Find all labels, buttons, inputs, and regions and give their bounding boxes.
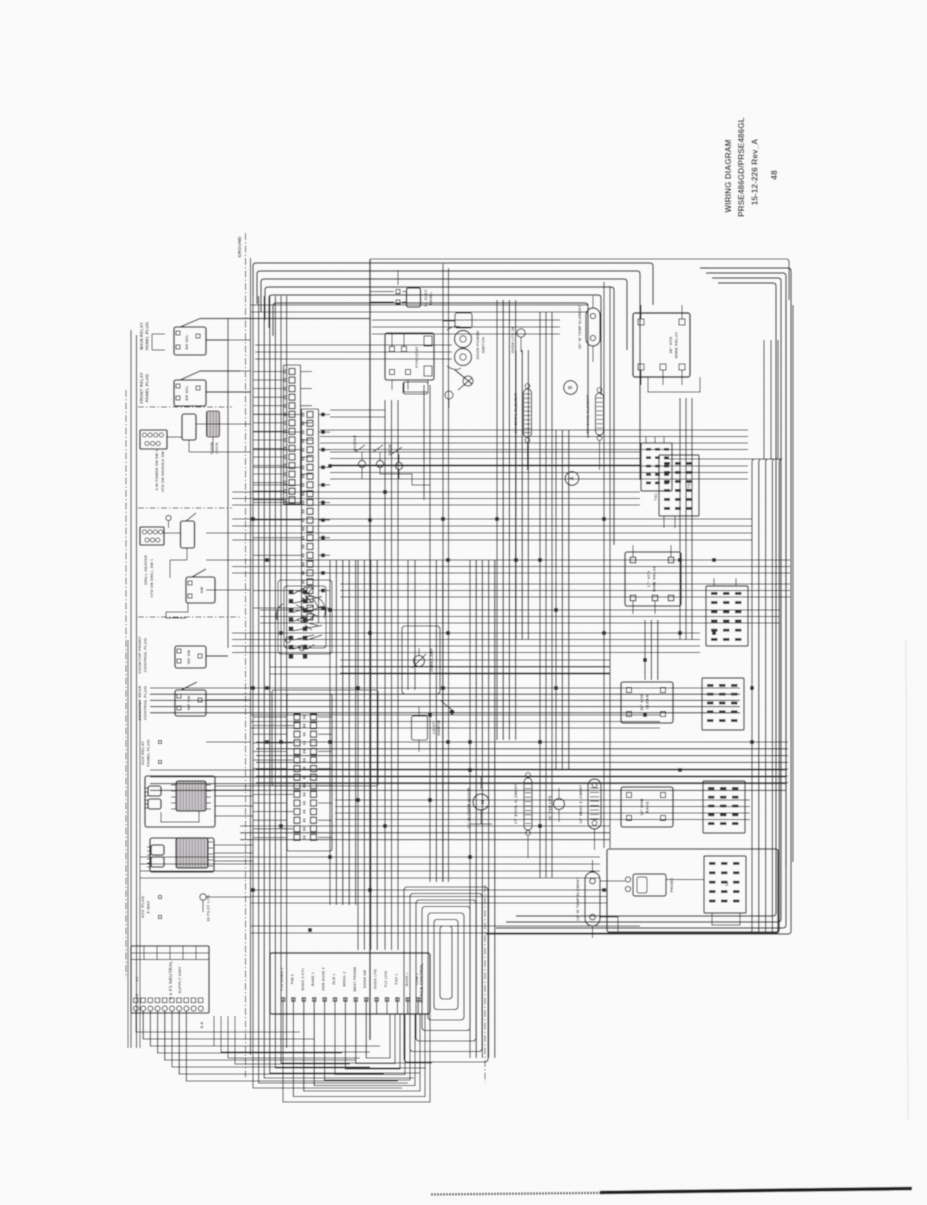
blower motor 17	[473, 794, 489, 810]
svg-text:88: 88	[303, 801, 307, 805]
heat wire relay 36	[633, 313, 690, 377]
left dash-dot border	[125, 390, 127, 978]
svg-text:INF SW: INF SW	[187, 650, 191, 665]
relay2 coil hatched	[176, 838, 208, 868]
svg-text:4 IN POWER ON SW 1: 4 IN POWER ON SW 1	[155, 450, 159, 491]
connector strip P3 pins B	[311, 714, 317, 720]
svg-text:AUX RELAY: AUX RELAY	[140, 741, 145, 766]
svg-text:8-8: 8-8	[199, 1021, 204, 1028]
mid verticals 4	[329, 560, 331, 905]
mid fill lines	[270, 666, 610, 668]
nested loop stack	[404, 887, 488, 1062]
svg-text:88: 88	[302, 553, 306, 557]
right frame wire bundle	[486, 268, 791, 934]
circle terminal A	[565, 472, 579, 486]
bundle row D2	[335, 799, 750, 801]
svg-text:88: 88	[283, 455, 287, 459]
bundle row D	[256, 741, 788, 743]
svg-text:WIRING DIAGRAM: WIRING DIAGRAM	[724, 139, 733, 212]
svg-text:PRSE486GD/PRSE486GL: PRSE486GD/PRSE486GL	[737, 117, 746, 217]
probe wiring	[666, 879, 704, 881]
svg-text:B: B	[568, 385, 574, 389]
relay module stubs	[215, 785, 253, 787]
svg-text:DOB BAKE 2: DOB BAKE 2	[322, 967, 326, 991]
svg-text:88: 88	[283, 421, 287, 425]
svg-text:BAKE L: BAKE L	[405, 971, 409, 986]
svg-text:SUPPLY 230V: SUPPLY 230V	[178, 966, 182, 993]
timer lever wires	[447, 326, 463, 330]
wire oven lite	[397, 270, 399, 285]
svg-text:42" FAN LITE: 42" FAN LITE	[548, 795, 552, 820]
svg-text:88: 88	[303, 732, 307, 736]
bundle row G	[260, 609, 780, 611]
hob relay 12	[621, 787, 673, 827]
svg-text:88: 88	[302, 474, 306, 478]
svg-text:4 x F1 NEUTRAL: 4 x F1 NEUTRAL	[168, 960, 173, 999]
heat wire relay 36 leads	[640, 305, 642, 319]
svg-text:36" W TEMP ELEMENT: 36" W TEMP ELEMENT	[578, 305, 582, 349]
probe cluster frame	[607, 849, 778, 932]
right short verticals	[763, 340, 765, 460]
connector strip P3 frame	[287, 694, 332, 851]
connector strip P1 leads	[301, 371, 313, 373]
svg-text:36" HOB: 36" HOB	[639, 693, 644, 710]
probe relay	[704, 856, 746, 913]
oven lamp switch loop	[166, 603, 188, 618]
left bus stubs	[206, 339, 251, 341]
board-left wire fan	[136, 1011, 300, 1032]
group divider dash-dot 2	[138, 507, 232, 509]
svg-text:88: 88	[303, 792, 307, 796]
svg-text:15-12-226 Rev_A: 15-12-226 Rev_A	[751, 139, 760, 206]
svg-text:88: 88	[283, 369, 287, 373]
svg-text:ACC PLUG: ACC PLUG	[140, 896, 145, 919]
terminal block screws	[134, 1006, 139, 1011]
svg-text:88: 88	[302, 562, 306, 566]
bottom scan black bar	[600, 1189, 912, 1193]
svg-text:88: 88	[283, 429, 287, 433]
svg-text:L1: L1	[135, 977, 139, 982]
sheet dash-dot border vertical	[245, 233, 247, 1078]
svg-text:88: 88	[283, 395, 287, 399]
upper horizontals 6	[232, 491, 640, 493]
faint streak	[906, 640, 908, 1120]
terminal block frame	[131, 946, 209, 1013]
bundle row C	[150, 687, 740, 689]
door lock motor hatched	[207, 411, 220, 437]
pilot lite circle	[200, 894, 206, 900]
connector strip P3 comb wires	[253, 716, 287, 718]
mid verticals 12	[384, 400, 386, 950]
svg-text:COOKTOP FRONT: COOKTOP FRONT	[137, 636, 142, 674]
svg-text:17" BROIL ELEMENT: 17" BROIL ELEMENT	[514, 783, 518, 824]
svg-text:88: 88	[303, 809, 307, 813]
svg-text:88: 88	[283, 438, 287, 442]
bottom scan text strip	[431, 1193, 640, 1195]
svg-text:88: 88	[302, 447, 306, 451]
broil element 36	[524, 389, 532, 437]
mid verticals 10	[496, 300, 498, 740]
relay 17 leads	[632, 545, 634, 557]
ground bus wire	[250, 258, 252, 1055]
selector switch S1	[174, 327, 206, 355]
thermostat relay K1	[385, 333, 434, 380]
svg-text:DLB 1: DLB 1	[332, 973, 336, 984]
right bundle verticals	[751, 462, 753, 930]
svg-text:WIRE RELAY: WIRE RELAY	[674, 331, 679, 358]
svg-text:12" W TEMP ELEMENT: 12" W TEMP ELEMENT	[576, 877, 580, 921]
loop stack dash-dot	[484, 885, 486, 1082]
svg-text:BAKE 1: BAKE 1	[311, 972, 315, 986]
svg-text:BROIL 2: BROIL 2	[342, 971, 346, 986]
mid verticals 9	[644, 620, 646, 680]
connector strip P1 pins	[289, 369, 295, 375]
cooktop front box	[175, 646, 206, 668]
upper horizontals 7	[255, 344, 452, 346]
connector strip P1 frame	[284, 365, 301, 504]
svg-text:88: 88	[303, 818, 307, 822]
svg-text:48: 48	[769, 170, 779, 180]
selector switch S2	[174, 380, 206, 406]
mid verticals 8	[555, 430, 557, 770]
bundle row E2	[250, 889, 607, 891]
door sw circle	[395, 462, 402, 469]
top wire bundle	[253, 263, 653, 305]
wire cooktop to bus	[206, 699, 251, 701]
selector contact matrix M3	[703, 781, 745, 833]
probe jack	[633, 874, 666, 896]
wire S2 right	[206, 391, 251, 393]
svg-text:BR SEL: BR SEL	[185, 334, 189, 350]
svg-text:OVEN LITE 36: OVEN LITE 36	[511, 327, 515, 353]
svg-text:PANEL PLUG: PANEL PLUG	[145, 322, 150, 351]
door lock wiring	[167, 436, 182, 438]
svg-text:88: 88	[283, 378, 287, 382]
bundle row I	[150, 769, 786, 771]
svg-text:12" BAKE ELEMENT: 12" BAKE ELEMENT	[579, 784, 583, 824]
board-left rising loops	[214, 1016, 380, 1046]
upper horizontals 2	[330, 409, 385, 411]
connector strip P2 frame	[302, 409, 319, 623]
mid verticals 11	[515, 350, 517, 640]
board-bottom wire loops	[283, 1014, 430, 1102]
mid verticals 1	[539, 312, 541, 878]
svg-text:12: 12	[724, 881, 729, 886]
mid verticals 7	[469, 560, 471, 1058]
top frame extension wires	[370, 259, 789, 300]
bundle row B	[232, 632, 700, 634]
cooktop rear box	[175, 690, 206, 716]
mid verticals 2	[603, 282, 605, 848]
wire S1 to bus	[206, 339, 228, 341]
svg-text:88: 88	[302, 509, 306, 513]
relay1 coil hatched	[176, 781, 206, 811]
svg-text:OVEN LITE: OVEN LITE	[374, 968, 378, 989]
oven selector switch TS2	[659, 455, 699, 516]
svg-text:MAIN RELAY: MAIN RELAY	[139, 322, 144, 350]
svg-text:SWITCH: SWITCH	[482, 337, 486, 353]
svg-text:PANEL: PANEL	[429, 291, 433, 305]
connector strip P3 pins A	[294, 714, 300, 720]
svg-text:88: 88	[302, 465, 306, 469]
circle terminal B	[564, 381, 578, 395]
connector strip P2 leads	[319, 414, 331, 416]
svg-text:A: A	[570, 476, 576, 480]
connector strip P2 pins	[307, 412, 313, 418]
broil element 17	[524, 778, 532, 830]
harness wire pair	[442, 264, 444, 882]
svg-text:88: 88	[303, 749, 307, 753]
fan lite 42	[554, 799, 565, 810]
svg-text:FAN 1: FAN 1	[394, 974, 398, 985]
surface relay module 2 frame	[150, 838, 214, 872]
upper horizontals 8	[250, 304, 588, 306]
svg-text:P08 2: P08 2	[290, 974, 294, 984]
mid verticals 6	[429, 560, 431, 882]
bundle row E	[140, 856, 600, 858]
far right verticals	[785, 300, 787, 868]
mid verticals 5	[357, 560, 359, 950]
left bundle extra verticals	[127, 640, 129, 1048]
svg-text:TS1: TS1	[654, 493, 658, 501]
svg-text:TS2: TS2	[687, 481, 691, 489]
svg-text:INF SW: INF SW	[187, 696, 191, 711]
svg-text:88: 88	[283, 403, 287, 407]
svg-text:88: 88	[302, 500, 306, 504]
surface relay module 1 frame	[145, 776, 215, 827]
svg-text:GROUND: GROUND	[237, 236, 242, 258]
grill connector J4	[140, 527, 164, 545]
svg-text:SW: SW	[200, 587, 204, 594]
svg-text:88: 88	[302, 439, 306, 443]
door lock switch body	[182, 414, 196, 440]
svg-text:88: 88	[302, 527, 306, 531]
svg-text:88: 88	[303, 827, 307, 831]
oven lamp switch box	[186, 577, 215, 603]
long vertical harness wire	[369, 259, 371, 1040]
svg-text:88: 88	[303, 835, 307, 839]
hob clean relay 36	[621, 682, 673, 723]
mid verticals 3	[679, 398, 681, 640]
upper horizontals 1	[330, 451, 640, 453]
bundle row A	[232, 518, 752, 520]
relay1 left pin stack	[148, 786, 161, 796]
buzzer area verticals	[423, 385, 425, 500]
range control board	[270, 953, 430, 1014]
door lock node	[440, 700, 452, 710]
oven lite box	[407, 288, 421, 307]
svg-text:CONTROL PLUG: CONTROL PLUG	[143, 638, 148, 672]
buzzer circle	[358, 460, 365, 467]
svg-text:88: 88	[302, 421, 306, 425]
heat wire relay 17	[625, 552, 681, 606]
bake element 36	[596, 393, 604, 435]
svg-text:88: 88	[303, 758, 307, 762]
svg-text:HTD ON GRILL SW 1: HTD ON GRILL SW 1	[150, 559, 154, 598]
board pin stubs and labels	[282, 998, 284, 1014]
connector strip P1 comb wires	[253, 371, 284, 373]
svg-text:36" BAKE ELEMENT: 36" BAKE ELEMENT	[586, 394, 590, 434]
selector timer circles	[455, 331, 472, 348]
grill wiring	[164, 532, 181, 534]
svg-text:88: 88	[302, 412, 306, 416]
upper horizontals 5	[330, 465, 748, 467]
grill pilot circle	[166, 515, 171, 520]
svg-text:88: 88	[302, 535, 306, 539]
svg-text:88: 88	[283, 480, 287, 484]
temp element 36 oval	[586, 308, 600, 346]
connector strip P3 leads	[318, 716, 332, 718]
svg-text:GRILL HEATER: GRILL HEATER	[144, 555, 148, 585]
bundle row A2	[232, 559, 790, 561]
bundle row H	[250, 714, 660, 716]
svg-text:36" HTD: 36" HTD	[668, 336, 673, 353]
connector strip P2 comb wires	[253, 414, 302, 416]
bundle row A3	[340, 583, 790, 585]
bundle row J	[240, 825, 610, 827]
left vertical wire pair	[130, 330, 132, 1048]
junction dots	[252, 518, 255, 521]
harness knot cluster	[289, 590, 293, 594]
connector strip P3 outer box	[272, 690, 378, 786]
selector contact matrix M1	[706, 586, 748, 646]
svg-text:9 WAY: 9 WAY	[146, 900, 151, 913]
svg-text:88: 88	[302, 456, 306, 460]
terminal block contact squares	[134, 998, 139, 1003]
bundle row F	[250, 925, 640, 927]
bundle row B2	[340, 659, 610, 661]
light switch small	[412, 716, 428, 740]
oven lamp assembly	[402, 626, 440, 694]
frame bottom corner turns	[253, 1048, 402, 1088]
relay2 left pin stack	[151, 845, 164, 855]
svg-text:88: 88	[302, 430, 306, 434]
svg-text:88: 88	[302, 483, 306, 487]
left frame wire bundle	[252, 296, 254, 1048]
svg-text:BAKE 2 KYL: BAKE 2 KYL	[301, 967, 305, 990]
grill heater switch	[181, 521, 195, 548]
bake element 12 oval	[588, 779, 601, 829]
upper horizontals 4	[320, 429, 748, 431]
group divider dash-dot	[138, 406, 232, 408]
svg-text:CONTROL PLUG: CONTROL PLUG	[143, 686, 148, 720]
svg-text:88: 88	[283, 386, 287, 390]
svg-text:88: 88	[303, 723, 307, 727]
svg-text:88: 88	[283, 489, 287, 493]
svg-text:BL ELEC: BL ELEC	[424, 289, 428, 307]
right bundle top corners	[700, 459, 755, 462]
svg-text:DOOR POWER: DOOR POWER	[476, 331, 480, 360]
window lite circle	[517, 329, 525, 337]
svg-text:BR SEL: BR SEL	[185, 385, 189, 401]
terminal block header	[131, 952, 209, 954]
door switch loop	[404, 380, 428, 392]
svg-text:88: 88	[283, 472, 287, 476]
group divider dash-dot 3	[138, 616, 240, 618]
svg-text:HTD ON GRIDDLE SW 1: HTD ON GRIDDLE SW 1	[161, 448, 165, 493]
extra junction dots	[329, 465, 332, 468]
svg-text:PYROSTAT: PYROSTAT	[415, 346, 419, 368]
svg-text:DOOR SW: DOOR SW	[363, 969, 367, 988]
svg-text:PANEL PLUG: PANEL PLUG	[145, 374, 150, 403]
svg-text:P12 LIVE: P12 LIVE	[384, 970, 388, 987]
right bundle bottom corners	[620, 930, 752, 933]
buzzer loop wire	[362, 468, 399, 479]
svg-text:FRONT RELAY: FRONT RELAY	[139, 372, 144, 404]
svg-text:WIRE RELAY: WIRE RELAY	[652, 566, 657, 592]
svg-text:PANEL PLUG: PANEL PLUG	[146, 739, 151, 766]
svg-text:88: 88	[302, 544, 306, 548]
svg-text:36 PILOT LITE: 36 PILOT LITE	[207, 894, 211, 921]
door lock connector J3	[140, 430, 167, 449]
svg-text:88: 88	[303, 741, 307, 745]
oven selector switch TS1	[641, 443, 672, 491]
svg-text:MEAT PROBE: MEAT PROBE	[353, 966, 357, 992]
door buzzer circle	[376, 460, 383, 467]
svg-text:P10 DOWN 2: P10 DOWN 2	[280, 967, 284, 990]
temp element 12 oval	[585, 872, 600, 926]
selector contact matrix M2	[702, 678, 744, 730]
relay1 bottom loop	[161, 811, 199, 822]
thermostat relay leads	[391, 333, 393, 346]
selector leads	[663, 516, 665, 528]
upper horizontals 3	[372, 319, 560, 321]
